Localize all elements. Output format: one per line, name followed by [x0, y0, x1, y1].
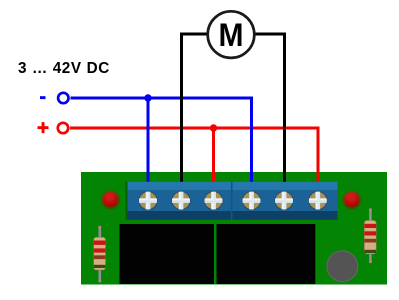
resistor R2 (right) [364, 208, 376, 263]
resistor R1 (left) [94, 226, 106, 283]
plus symbol [38, 122, 49, 133]
node blue junction [144, 94, 151, 101]
PCB board [81, 172, 387, 285]
wire black motor left [182, 34, 232, 186]
motor M1 circle [208, 11, 255, 58]
wire blue branch to terminal 1 [147, 98, 150, 186]
relay K1 (black module left) [120, 224, 215, 284]
svg-text:3 … 42V DC: 3 … 42V DC [18, 60, 110, 77]
terminal block X2 (right half) [231, 182, 338, 220]
LED D1 (left red LED) [102, 191, 119, 208]
wire red branch to terminal 3 [212, 128, 215, 186]
wire blue minus rail [71, 98, 252, 186]
node red junction [210, 124, 217, 131]
LED D2 (right red LED) [344, 192, 361, 209]
minus symbol [40, 96, 46, 99]
trimpot (gray disc) [327, 251, 358, 282]
terminal screw 4 [242, 191, 260, 209]
wire red plus rail [70, 128, 318, 186]
terminal screw 2 [172, 191, 190, 209]
terminal screw 6 [309, 191, 327, 209]
wire black motor right [231, 34, 285, 186]
terminal block X1 (left half) [126, 182, 233, 220]
terminal screw 1 [139, 191, 157, 209]
terminal screw 5 [275, 191, 293, 209]
terminal minus (blue circle) [58, 93, 68, 103]
relay K2 (black module right) [217, 224, 316, 284]
terminal plus (red circle) [58, 123, 68, 133]
terminal screw 3 [204, 191, 222, 209]
svg-text:M: M [219, 17, 244, 53]
